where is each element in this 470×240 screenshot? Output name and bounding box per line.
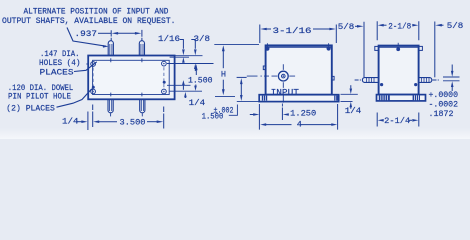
bottom shaft left <box>108 99 113 112</box>
left view: outer plate outline <box>88 56 174 100</box>
svg-text:3/8: 3/8 <box>194 34 211 44</box>
screw slot ticks <box>267 43 328 49</box>
extension line B lip <box>170 56 189 58</box>
top shaft left <box>108 41 113 56</box>
mounting hole top-right <box>162 61 167 66</box>
base bottom extension to left <box>237 101 259 103</box>
input CL downward + ext bar <box>281 104 283 107</box>
ext bars 3-1/16 <box>259 25 261 44</box>
left shaft <box>362 78 378 83</box>
extension bar left shaft CL <box>110 30 112 40</box>
svg-text:5/8: 5/8 <box>338 22 355 32</box>
vertical hole centerlines dashed <box>92 68 94 89</box>
svg-text:1/4: 1/4 <box>189 98 206 108</box>
right base flange <box>377 95 426 101</box>
svg-text:3-1/16: 3-1/16 <box>273 26 312 36</box>
dim 1/4 bracket <box>184 92 187 98</box>
dim 1.250 <box>253 113 259 116</box>
dim 1.500 (left view holes) <box>195 64 198 70</box>
right box body <box>379 46 419 95</box>
text 1.500 +-.002 <box>202 107 234 122</box>
mounting hole bottom-left <box>91 89 96 94</box>
mounting hole bottom-right <box>162 89 167 94</box>
extension line E dowel CL <box>167 84 191 86</box>
svg-text:2-1/8: 2-1/8 <box>388 22 411 32</box>
leader from note to top-left shaft <box>67 28 106 47</box>
leader to top-left hole <box>74 62 97 72</box>
dimension .937 <box>75 30 98 39</box>
dim 3/8 <box>194 34 211 44</box>
dowel pin dot mid-right <box>163 81 166 84</box>
dim 5/8 right <box>435 24 442 27</box>
tick end of CL <box>237 76 247 78</box>
base holes hatched <box>379 95 420 100</box>
svg-text:.1872: .1872 <box>429 110 454 119</box>
svg-text:1/4: 1/4 <box>345 106 362 116</box>
INPUT shaft circle <box>278 71 288 81</box>
svg-text:1/4: 1/4 <box>62 116 79 126</box>
input centerline to left <box>247 75 269 77</box>
extension line D lower hole CL <box>170 90 202 92</box>
dim 1/16 <box>158 34 180 44</box>
middle base flange <box>259 95 339 102</box>
side bump left <box>263 66 265 70</box>
dim H <box>214 44 259 46</box>
svg-text:HOLES (4): HOLES (4) <box>39 58 81 68</box>
bottom shaft right <box>140 99 145 112</box>
svg-text:-.0002: -.0002 <box>429 101 459 110</box>
note text: alternate position <box>2 7 176 26</box>
ext bar right hole CL <box>163 107 165 129</box>
mounting hole top-left .147 <box>91 62 96 67</box>
arrow up to line E <box>182 80 185 85</box>
dim 1/4 base thickness <box>341 93 358 95</box>
vertical dim 1.500 +-.002 <box>240 78 243 84</box>
dowel pin dot lower-left <box>92 86 95 89</box>
dowel pin dots <box>380 83 383 86</box>
dim 4 <box>259 104 337 130</box>
right shaft <box>419 78 432 83</box>
svg-text:.147 DIA.: .147 DIA. <box>40 50 80 59</box>
label .147 DIA HOLES (4) PLACES <box>39 50 81 77</box>
svg-text:(2) PLACES: (2) PLACES <box>6 104 55 114</box>
extension line A top face <box>175 55 203 57</box>
left view: inner body outline <box>93 60 170 94</box>
leader to dowel dot <box>57 89 92 107</box>
ext line to shaft of side view <box>363 22 365 77</box>
svg-text:PLACES: PLACES <box>40 69 74 78</box>
ext bar plate edge <box>87 112 89 131</box>
label .120 dowel <box>6 84 73 114</box>
middle box body <box>266 45 332 94</box>
top shaft right <box>139 41 144 56</box>
svg-text:3.500: 3.500 <box>120 119 146 128</box>
screw dots <box>265 47 269 51</box>
extension bar right shaft CL <box>141 30 143 41</box>
dim 5/8 (middle top) <box>338 22 355 32</box>
hole centerline stub left edge <box>86 63 88 65</box>
svg-text:1.500: 1.500 <box>188 77 213 86</box>
svg-text:ALTERNATE POSITION OF INPUT AN: ALTERNATE POSITION OF INPUT AND <box>24 7 169 16</box>
shaft dia dim <box>443 76 460 78</box>
svg-text:PIN PILOT HOLE: PIN PILOT HOLE <box>8 93 71 102</box>
svg-text:1/16: 1/16 <box>158 34 180 44</box>
top screw tick + dot <box>397 43 399 46</box>
svg-text:.937: .937 <box>75 30 98 39</box>
stub centerline nubs crossing inner rect <box>111 58 142 96</box>
svg-text:1.250: 1.250 <box>290 109 316 118</box>
svg-text:OUTPUT SHAFTS, AVAILABLE ON RE: OUTPUT SHAFTS, AVAILABLE ON REQUEST. <box>2 17 176 26</box>
ext bar dowel CL <box>92 105 94 128</box>
bottom-left dims: 1/4 and 3.500 <box>62 116 79 126</box>
dim 2-1/8 <box>377 21 419 40</box>
svg-text:+.0000: +.0000 <box>429 91 459 100</box>
base hole left (hidden/hatched) <box>262 96 339 101</box>
svg-text:H: H <box>221 70 226 80</box>
svg-text:1.500: 1.500 <box>202 113 224 122</box>
svg-text:5/8: 5/8 <box>447 21 464 31</box>
dim 3-1/16 <box>260 28 267 31</box>
extension line C hole CL <box>167 63 214 65</box>
corner bumps <box>375 46 379 50</box>
dim 2-1/4 <box>377 113 419 127</box>
svg-text:.120 DIA. DOWEL: .120 DIA. DOWEL <box>8 84 74 93</box>
side bump right <box>332 76 334 80</box>
svg-text:2-1/4: 2-1/4 <box>384 116 410 126</box>
